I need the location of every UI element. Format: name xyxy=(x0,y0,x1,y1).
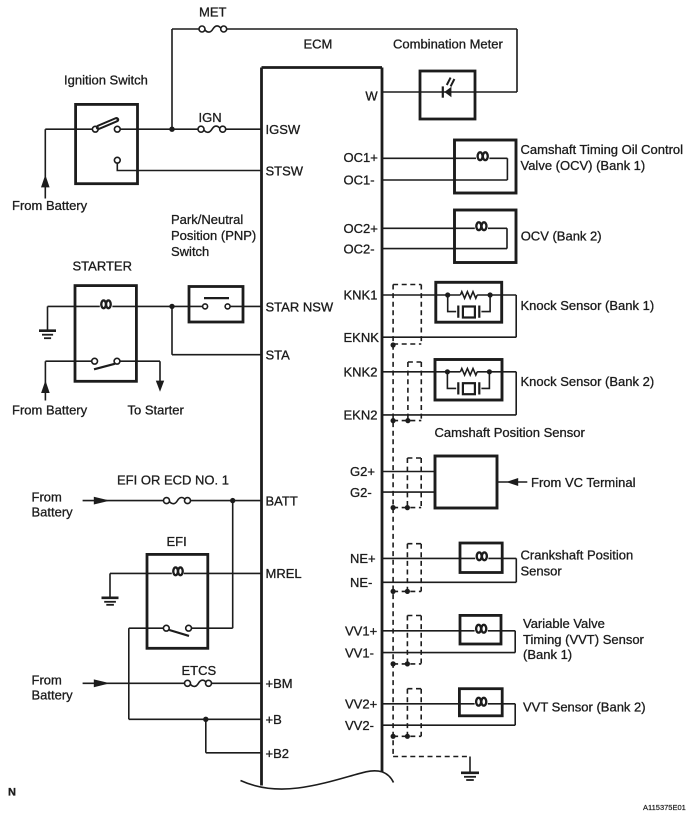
svg-text:MET: MET xyxy=(199,4,227,19)
svg-text:OC1+: OC1+ xyxy=(344,150,378,165)
svg-text:Sensor: Sensor xyxy=(521,563,563,578)
svg-text:VV1+: VV1+ xyxy=(345,624,377,639)
svg-text:STA: STA xyxy=(266,348,291,363)
svg-text:OC2-: OC2- xyxy=(344,241,375,256)
svg-text:To Starter: To Starter xyxy=(128,402,185,417)
svg-text:A115375E01: A115375E01 xyxy=(643,803,686,812)
svg-text:VV2-: VV2- xyxy=(345,718,374,733)
svg-text:Camshaft Timing Oil Control: Camshaft Timing Oil Control xyxy=(521,142,684,157)
svg-text:IGSW: IGSW xyxy=(266,122,301,137)
svg-text:VV1-: VV1- xyxy=(345,645,374,660)
svg-text:IGN: IGN xyxy=(199,110,222,125)
svg-text:OC2+: OC2+ xyxy=(344,221,378,236)
svg-text:Position (PNP): Position (PNP) xyxy=(171,228,256,243)
svg-text:NE+: NE+ xyxy=(350,551,376,566)
svg-text:STSW: STSW xyxy=(266,163,304,178)
svg-text:BATT: BATT xyxy=(266,493,298,508)
svg-text:G2-: G2- xyxy=(350,485,372,500)
svg-text:From Battery: From Battery xyxy=(12,402,88,417)
svg-text:Knock Sensor (Bank 1): Knock Sensor (Bank 1) xyxy=(521,298,655,313)
svg-text:Camshaft Position Sensor: Camshaft Position Sensor xyxy=(435,425,586,440)
svg-text:Combination Meter: Combination Meter xyxy=(393,36,503,51)
svg-text:EKNK: EKNK xyxy=(344,330,380,345)
svg-text:STARTER: STARTER xyxy=(73,259,132,274)
svg-text:Switch: Switch xyxy=(171,244,209,259)
svg-text:EFI OR ECD NO. 1: EFI OR ECD NO. 1 xyxy=(117,472,229,487)
svg-text:ECM: ECM xyxy=(304,36,333,51)
svg-text:+B2: +B2 xyxy=(266,746,290,761)
svg-text:ETCS: ETCS xyxy=(182,663,217,678)
svg-text:VVT Sensor (Bank 2): VVT Sensor (Bank 2) xyxy=(523,699,646,714)
svg-text:Ignition Switch: Ignition Switch xyxy=(64,72,148,87)
svg-text:Valve (OCV) (Bank 1): Valve (OCV) (Bank 1) xyxy=(521,158,646,173)
svg-text:STAR NSW: STAR NSW xyxy=(266,299,334,314)
svg-text:EFI: EFI xyxy=(167,534,187,549)
svg-text:(Bank 1): (Bank 1) xyxy=(523,647,572,662)
svg-text:W: W xyxy=(365,88,378,103)
svg-text:Timing (VVT) Sensor: Timing (VVT) Sensor xyxy=(523,632,645,647)
svg-text:Park/Neutral: Park/Neutral xyxy=(171,212,243,227)
svg-text:+BM: +BM xyxy=(266,676,293,691)
svg-text:From: From xyxy=(32,489,62,504)
svg-text:G2+: G2+ xyxy=(350,464,375,479)
svg-text:Crankshaft Position: Crankshaft Position xyxy=(521,547,634,562)
svg-text:From: From xyxy=(32,672,62,687)
svg-text:VV2+: VV2+ xyxy=(345,697,377,712)
svg-text:Battery: Battery xyxy=(32,687,74,702)
svg-text:Variable Valve: Variable Valve xyxy=(523,616,605,631)
svg-text:From Battery: From Battery xyxy=(12,198,88,213)
svg-text:Knock Sensor (Bank 2): Knock Sensor (Bank 2) xyxy=(521,374,655,389)
svg-text:+B: +B xyxy=(266,712,282,727)
svg-text:OC1-: OC1- xyxy=(344,173,375,188)
svg-text:EKN2: EKN2 xyxy=(344,408,378,423)
svg-text:KNK2: KNK2 xyxy=(344,365,378,380)
svg-text:NE-: NE- xyxy=(350,575,372,590)
svg-text:OCV (Bank 2): OCV (Bank 2) xyxy=(521,229,602,244)
svg-text:From VC Terminal: From VC Terminal xyxy=(531,475,636,490)
svg-text:Battery: Battery xyxy=(32,504,74,519)
svg-text:MREL: MREL xyxy=(266,566,302,581)
svg-text:N: N xyxy=(8,787,16,799)
svg-text:KNK1: KNK1 xyxy=(344,288,378,303)
